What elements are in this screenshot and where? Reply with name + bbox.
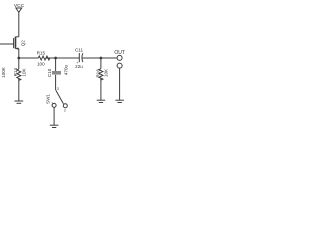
resistor R14 value 10K [13, 67, 27, 80]
svg-text:Q2: Q2 [20, 40, 25, 47]
node A junction [17, 57, 20, 60]
svg-text:10K: 10K [21, 67, 26, 76]
capacitor C10 value 470u [47, 64, 68, 77]
wire node B to C10 [55, 58, 57, 71]
wire node A to R14 [18, 58, 20, 69]
wire VCC to Q2 drain [18, 12, 20, 36]
wire node C to R16 [100, 58, 102, 69]
svg-text:3: 3 [57, 87, 59, 91]
wire C10 to SW1 pivot, pin 3 [56, 75, 59, 91]
ground G4 [115, 100, 124, 102]
wire node A to R15 [19, 57, 39, 59]
svg-text:22u: 22u [75, 64, 83, 69]
wire node B to C11 [56, 57, 80, 59]
svg-text:R16: R16 [96, 69, 101, 78]
wire gate of Q2 to left edge [0, 43, 13, 45]
wire Q2 source to node A [18, 49, 20, 58]
connector OUT [114, 50, 125, 68]
svg-text:470u: 470u [63, 64, 68, 75]
svg-text:100K: 100K [1, 66, 6, 78]
svg-text:R14: R14 [13, 68, 18, 77]
wire OUT pin 2 to ground [119, 68, 121, 100]
wire R15 to node B [46, 57, 56, 59]
svg-text:1: 1 [51, 102, 53, 106]
node C junction [100, 57, 103, 60]
ground G1 [14, 101, 23, 103]
ground G3 [97, 100, 106, 102]
svg-text:C11: C11 [75, 47, 84, 52]
wire node C to OUT pin 1 [101, 57, 117, 59]
wire SW1 pin 1 to ground [53, 108, 55, 126]
ground G2 [50, 125, 59, 127]
wire R16 to ground [100, 78, 102, 100]
svg-text:R15: R15 [37, 50, 46, 55]
wire R14 to ground [18, 78, 20, 100]
svg-text:10K: 10K [104, 68, 109, 77]
resistor R15 value 100 [37, 50, 50, 66]
resistor R16 value 10K [96, 68, 109, 80]
switch SW1 [46, 90, 68, 112]
svg-text:2: 2 [64, 108, 66, 112]
power symbol VCC [14, 3, 25, 12]
svg-text:SW1: SW1 [46, 94, 51, 104]
svg-text:C10: C10 [47, 68, 52, 77]
transistor Q2 [14, 37, 26, 50]
capacitor C11 22u polarized [75, 47, 84, 69]
svg-text:100: 100 [37, 61, 45, 66]
node B junction [54, 57, 57, 60]
wire C11 to node C [82, 57, 101, 59]
